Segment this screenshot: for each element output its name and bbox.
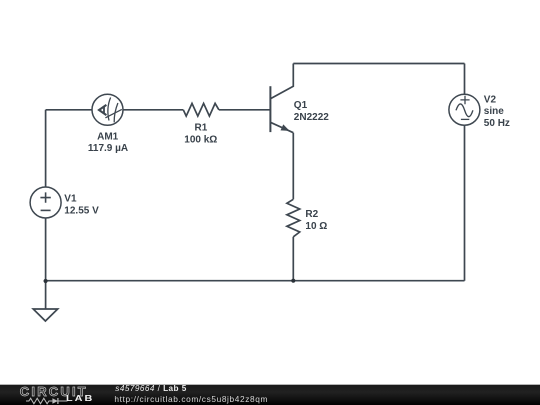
wire V2 bottom to bottom-right corner — [464, 125, 466, 281]
wire R2 to bottom wire — [292, 237, 294, 281]
ground — [33, 309, 58, 321]
logo resistor-diode glyph — [26, 397, 68, 405]
wire ground stem — [45, 281, 47, 309]
svg-text:50 Hz: 50 Hz — [484, 118, 510, 129]
logo CIRCUIT outline text — [20, 385, 88, 398]
footer bar — [0, 384, 540, 405]
wire R1 to Q1 base — [219, 109, 271, 111]
svg-text:sine: sine — [484, 106, 504, 117]
svg-text:AM1: AM1 — [97, 131, 119, 142]
resistor R1 — [183, 103, 219, 116]
wire top-left horizontal — [46, 109, 92, 111]
svg-text:12.55 V: 12.55 V — [64, 205, 99, 216]
ammeter AM1 — [92, 94, 123, 125]
wire Q1 collector to top-right corner — [293, 63, 464, 65]
svg-text:Q1: Q1 — [294, 100, 308, 111]
svg-text:R2: R2 — [305, 209, 318, 220]
wire V1 bottom to ground node — [45, 218, 47, 281]
wire ammeter to R1 — [123, 109, 183, 111]
svg-text:V2: V2 — [484, 95, 497, 106]
resistor R2 — [287, 199, 300, 237]
wire bottom horizontal — [46, 280, 465, 282]
footer title line — [115, 385, 186, 393]
wire Q1 emitter to R2 — [292, 133, 294, 200]
svg-text:R1: R1 — [195, 122, 208, 133]
junction node at V1/ground — [44, 279, 48, 283]
voltage source V2 — [449, 94, 480, 125]
voltage source V1 — [30, 187, 61, 218]
svg-text:2N2222: 2N2222 — [294, 112, 329, 123]
svg-text:100 kΩ: 100 kΩ — [184, 134, 217, 145]
footer url line — [114, 395, 268, 403]
wire left vertical (V1 top) — [45, 110, 47, 187]
svg-text:V1: V1 — [64, 194, 77, 205]
junction node at R2/bottom wire — [291, 279, 295, 283]
logo LAB text — [66, 395, 94, 403]
transistor Q1 — [270, 64, 293, 133]
svg-text:117.9 µA: 117.9 µA — [88, 143, 128, 154]
wire right vertical to V2 top — [464, 64, 466, 95]
svg-text:10 Ω: 10 Ω — [305, 221, 327, 232]
